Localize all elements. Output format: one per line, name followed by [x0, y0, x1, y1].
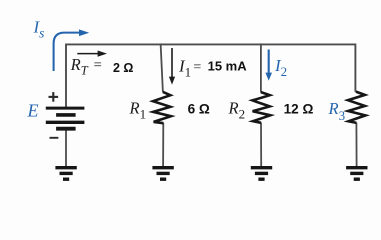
battery minus sign — [50, 137, 59, 139]
wire R1 to ground — [162, 123, 164, 166]
resistor R1 zigzag — [153, 92, 171, 123]
svg-text:2 Ω: 2 Ω — [113, 61, 133, 75]
wire R2 to ground — [260, 123, 262, 167]
resistor R2 zigzag — [252, 92, 270, 123]
ground R1 — [152, 168, 173, 180]
current I2 arrow — [268, 50, 270, 74]
ground battery — [55, 168, 76, 180]
source current Is blue arrow — [54, 33, 80, 71]
RT arrow — [77, 53, 98, 55]
svg-text:E: E — [27, 101, 39, 121]
svg-text:=: = — [193, 60, 201, 75]
ground R3 — [346, 168, 367, 180]
battery plus sign — [49, 92, 59, 102]
svg-text:15 mA: 15 mA — [208, 58, 248, 73]
ground R2 — [251, 168, 272, 180]
wire R3 to ground — [355, 123, 357, 167]
wire top bus — [66, 44, 355, 108]
svg-text:=: = — [94, 58, 102, 74]
svg-text:6 Ω: 6 Ω — [188, 102, 210, 117]
current I1 arrow — [171, 48, 173, 78]
wire battery to ground — [65, 129, 67, 167]
battery E symbol — [46, 108, 85, 129]
wire R2 branch top — [260, 43, 262, 92]
wire R1 branch top — [161, 43, 163, 92]
svg-text:12 Ω: 12 Ω — [284, 102, 314, 117]
resistor R3 zigzag — [348, 92, 366, 123]
